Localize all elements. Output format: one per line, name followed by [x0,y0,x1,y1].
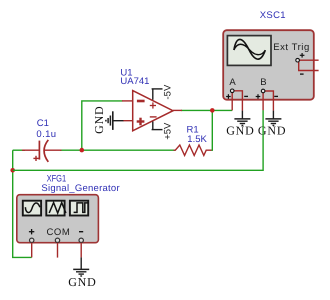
ground below channel B [265,119,281,126]
wire XFG1 minus to ground [80,257,82,269]
ground at op-amp non-inverting input (rotated) [106,111,124,130]
svg-text:B: B [260,77,266,88]
op-amp minus input mark [137,100,145,103]
svg-text:+5V: +5V [163,122,174,140]
ground below channel A [234,119,250,126]
XFG1 plus pin stub [31,243,33,258]
XFG1 triangle button [46,201,64,216]
XFG1 COM jack [55,238,59,242]
op-amp U1 triangle [133,91,173,131]
op-amp inner plus (power) mark [150,102,156,108]
svg-text:GND: GND [68,275,96,289]
channel A minus mark [244,95,248,97]
op-amp non-inverting input pin [123,120,133,122]
wire node A to op-amp inverting input [82,101,123,150]
wire R1 right to output node [211,110,213,150]
XFG1 COM pin stub [57,243,59,258]
op-amp inner minus (power) mark [150,116,157,118]
XFG1 minus jack [79,238,83,242]
svg-text:UA741: UA741 [120,76,149,87]
junction bottom-left dot [10,168,15,173]
oscilloscope screen sine small [234,44,265,54]
svg-text:GND: GND [258,124,286,138]
XFG1 plus jack [30,238,34,242]
channel A icon link to minus pin [234,91,243,111]
svg-text:GND: GND [226,124,254,138]
label minus terminal [79,231,83,233]
ground below XFG1 [73,269,89,276]
junction output node dot [210,108,215,113]
svg-text:Signal_Generator: Signal_Generator [41,183,119,194]
svg-text:XSC1: XSC1 [260,10,286,21]
oscilloscope screen [227,36,271,66]
power -5V symbol [152,89,163,100]
svg-text:A: A [229,77,236,88]
wire C1 left lead net [13,149,25,151]
ext trig wire stubs [299,60,319,70]
wire bottom horizontal net to scope B [13,110,263,170]
capacitor C1 [22,140,62,162]
svg-text:C1: C1 [37,118,49,129]
op-amp inverting input pin [122,100,133,102]
channel B jack [261,89,265,93]
sine glyph [25,203,40,213]
svg-text:GND: GND [92,105,106,133]
square glyph [74,203,88,213]
channel A plus mark [226,94,231,99]
svg-text:0.1u: 0.1u [36,129,56,140]
channel B icon link to minus pin [265,91,274,111]
channel A jack [230,89,234,93]
oscilloscope screen sine big [234,39,265,59]
XFG1 sine button [23,201,41,216]
ext trig jack [296,58,300,62]
wire channel B minus to ground [272,111,274,119]
wire node A to R1 left [82,149,176,151]
resistor R1 [174,145,212,155]
instrument XFG1 body [17,195,99,243]
triangle glyph [49,203,66,213]
op-amp plus input mark [137,118,145,126]
power +5V symbol [152,122,163,130]
wire net input bottom-left vertical [13,150,32,257]
XFG1 minus pin stub [80,243,82,258]
junction node A dot [80,148,85,153]
wire channel A minus to ground [241,111,243,119]
channel A plus pin stub [231,93,233,111]
svg-text:-5V: -5V [163,84,174,99]
channel B plus mark [256,94,261,99]
ext trig plus mark [300,53,305,58]
svg-text:Ext Trig: Ext Trig [273,42,310,53]
ext trig minus mark [300,73,304,75]
svg-text:1.5K: 1.5K [187,134,207,145]
label plus terminal [29,229,34,234]
channel B minus mark [274,95,278,97]
svg-text:COM: COM [47,227,71,238]
instrument XSC1 body [223,30,314,100]
op-amp output pin [173,109,182,111]
channel B plus pin stub [262,93,264,111]
wire op-amp output to scope A [181,109,232,111]
wire C1 right to node A [60,149,82,151]
XFG1 square button [70,201,88,216]
